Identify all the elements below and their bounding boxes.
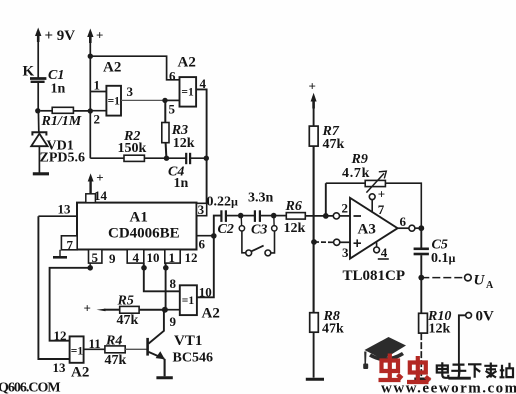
resistor R4: [105, 346, 125, 353]
pin 4 notch: [127, 250, 144, 264]
svg-text:47k: 47k: [105, 353, 127, 368]
pin 14 notch: [86, 194, 96, 203]
wire node to gate A2d pin9: [165, 309, 180, 311]
ground (0V): [448, 377, 470, 380]
svg-text:47k: 47k: [323, 137, 345, 152]
svg-text:+ 9V: + 9V: [45, 28, 76, 44]
svg-text:4.7k: 4.7k: [342, 166, 370, 181]
pin 1 notch: [165, 250, 180, 264]
node dot UA: [418, 275, 424, 281]
node dot feedback/pin2: [323, 213, 329, 219]
wire pin5 stub: [89, 263, 91, 268]
VT1 base bar: [146, 338, 149, 356]
R5 arrow (points left): [97, 309, 120, 312]
node dot C1/R1/VD1: [35, 108, 40, 113]
gate A2a body: [106, 86, 121, 116]
svg-text:47k: 47k: [322, 321, 344, 336]
node dot R1/pin2: [88, 108, 93, 113]
resistor R7: [309, 126, 318, 146]
svg-text:2: 2: [342, 201, 349, 216]
wire rail R7 to R8: [313, 146, 315, 313]
svg-text:14: 14: [94, 188, 108, 203]
node dot pin4/10: [141, 265, 147, 271]
node dot output: [418, 225, 424, 231]
wire feedback top row: [326, 183, 422, 228]
svg-text:=1: =1: [108, 96, 121, 108]
node dot pin6/C2 column: [211, 233, 217, 239]
svg-text:A3: A3: [358, 222, 376, 238]
wire C1 to node: [37, 83, 39, 111]
wire pin 13: [38, 215, 77, 217]
node dot R5/VT1/pin9: [162, 307, 168, 313]
svg-text:12k: 12k: [284, 221, 306, 236]
resistor R2: [124, 155, 167, 161]
gate A2d body: [180, 285, 197, 315]
svg-text:4: 4: [381, 245, 388, 260]
wire rail B down: [89, 56, 91, 158]
watermark graduation cap logo: [363, 337, 406, 369]
output terminal circle: [409, 225, 415, 231]
svg-text:6: 6: [199, 237, 206, 252]
svg-text:+: +: [96, 170, 103, 185]
wire VD1 to ground: [38, 146, 40, 172]
wire C3 to R6: [274, 215, 287, 217]
node dot pin1: [163, 265, 169, 271]
switch S contact stub right: [272, 218, 277, 231]
svg-text:=1: =1: [71, 346, 84, 358]
VT1 emitter with arrow: [149, 351, 165, 376]
wire A3 output: [398, 227, 409, 229]
wire terminal to output node: [415, 227, 421, 229]
wire output node to C5: [420, 228, 422, 247]
capacitor C3: [241, 210, 274, 222]
UA terminal circle: [465, 274, 472, 281]
node dot gate output / R3: [162, 98, 167, 103]
node dot rail B top: [88, 54, 93, 59]
svg-text:R5: R5: [117, 293, 134, 308]
0V terminal circle: [466, 312, 472, 318]
wire pin10 to gate A2d pin8: [144, 263, 180, 291]
wire node to gate A2b pin5: [165, 99, 180, 101]
svg-text:R1/1M: R1/1M: [41, 114, 82, 129]
pin 6 wire: [197, 235, 214, 237]
svg-text:R9: R9: [351, 152, 368, 167]
svg-text:=1: =1: [181, 87, 194, 99]
ground (VD1): [33, 172, 49, 175]
svg-text:2: 2: [94, 112, 101, 127]
svg-text:Q606.COM: Q606.COM: [0, 381, 60, 394]
svg-text:+: +: [378, 187, 385, 202]
wire R6 to op-amp pin2: [305, 215, 333, 217]
wire supply to C1: [37, 42, 39, 78]
svg-text:10: 10: [147, 250, 160, 265]
wire R4 to VT1 base: [125, 348, 146, 350]
svg-text:A2: A2: [71, 365, 89, 381]
svg-text:6: 6: [400, 214, 407, 229]
capacitor C4: [167, 153, 207, 164]
wire R5 to node: [139, 309, 166, 311]
svg-text:13: 13: [58, 202, 72, 217]
switch S lower-left contact: [242, 231, 252, 256]
svg-text:1: 1: [94, 78, 101, 93]
svg-text:A2: A2: [202, 306, 220, 322]
watermark red chars (chong chong): [379, 354, 431, 383]
zener diode VD1: [31, 132, 47, 146]
svg-text:3: 3: [198, 202, 205, 217]
svg-text:+: +: [309, 79, 316, 94]
wire gate A2d output up to pin6/C2: [197, 216, 221, 298]
wire gate A2b output down to pin3 of A1: [196, 89, 207, 203]
wire node to VD1: [37, 111, 39, 132]
R9 adjust arrow: [366, 171, 386, 192]
minus bar pin4: [378, 258, 389, 260]
switch S lever: [252, 246, 264, 252]
watermark black chars (dianzi xiazai zhan): [437, 362, 513, 378]
svg-text:12k: 12k: [429, 322, 451, 337]
wire R10 to ground: [420, 333, 422, 377]
svg-text:A: A: [486, 280, 494, 291]
svg-text:CD4006BE: CD4006BE: [108, 226, 180, 242]
wire feedback up: [325, 183, 327, 216]
svg-text:5: 5: [92, 250, 99, 265]
node dot C4/pin3 column: [204, 156, 209, 161]
svg-text:5: 5: [169, 102, 176, 117]
pin 5 notch: [89, 250, 102, 264]
svg-text:A2: A2: [103, 60, 121, 76]
wire gate A2c output to R4: [84, 348, 105, 350]
svg-text:150k: 150k: [118, 141, 147, 156]
svg-text:R4: R4: [105, 333, 122, 348]
resistor R3: [162, 100, 169, 158]
node dot C3/R6: [271, 213, 277, 219]
svg-text:1n: 1n: [174, 176, 189, 191]
pin3 terminal: [334, 239, 350, 245]
svg-text:U: U: [474, 273, 486, 289]
svg-text:3.3n: 3.3n: [248, 191, 274, 206]
svg-text:ZPD5.6: ZPD5.6: [40, 151, 86, 166]
wire rail to R2: [90, 157, 124, 159]
wire to R7: [313, 109, 315, 127]
svg-text:+: +: [84, 301, 91, 316]
wire pin2 input: [90, 110, 106, 112]
svg-text:www.eeworm.com: www.eeworm.com: [381, 381, 516, 394]
svg-text:=1: =1: [182, 295, 195, 307]
pin 4 stub: [374, 242, 380, 253]
plus mark (pin3): [354, 239, 362, 247]
node dot R2/R3/C4: [164, 156, 169, 161]
svg-text:1n: 1n: [51, 82, 66, 97]
ground (R8): [306, 378, 324, 381]
resistor R10: [419, 313, 428, 333]
ground (pin 7): [53, 250, 67, 257]
wire UA node to R10: [420, 278, 422, 314]
capacitor C1: [30, 79, 46, 82]
svg-text:13: 13: [53, 360, 67, 375]
ground (VT1 emitter): [156, 376, 172, 379]
svg-text:7: 7: [378, 202, 385, 217]
svg-text:C2: C2: [218, 222, 234, 237]
pin 7 notch: [61, 236, 77, 250]
wire R8 to ground: [313, 332, 315, 377]
pin 14 supply arrow: [88, 173, 94, 193]
svg-text:6: 6: [169, 69, 176, 84]
VT1 collector: [149, 310, 164, 344]
resistor R9: [365, 180, 385, 186]
+ supply arrow (rail B): [87, 29, 93, 44]
wire pin2 terminal: [333, 213, 350, 219]
svg-text:3: 3: [127, 84, 134, 99]
svg-text:12: 12: [54, 328, 67, 343]
svg-text:BC546: BC546: [173, 350, 213, 365]
svg-text:4: 4: [133, 250, 140, 265]
wire to UA terminal: [421, 277, 464, 279]
svg-text:9: 9: [170, 314, 177, 329]
svg-text:A2: A2: [178, 55, 196, 71]
node dot C2/C3: [238, 213, 244, 219]
svg-text:0.22µ: 0.22µ: [207, 195, 239, 210]
wire pin13 left descent: [38, 216, 69, 359]
switch S contact stub left: [239, 218, 244, 231]
wire rail to pin3: [314, 241, 334, 243]
node dot rail/pin3: [311, 239, 317, 245]
resistor R5: [120, 306, 139, 313]
resistor R1: [41, 107, 91, 113]
ground (R10): [414, 378, 430, 381]
resistor R8: [310, 313, 319, 333]
resistor R6: [286, 213, 305, 220]
capacitor C2: [221, 210, 240, 222]
svg-text:TL081CP: TL081CP: [343, 268, 406, 284]
svg-text:1: 1: [169, 250, 176, 265]
wire pin5 to left descent: [50, 268, 91, 341]
A1 body: [77, 203, 197, 250]
+9V supply arrow: [35, 28, 41, 43]
+ supply arrow (R7): [311, 93, 317, 109]
svg-text:7: 7: [67, 238, 74, 253]
svg-text:VT1: VT1: [174, 333, 202, 349]
svg-text:A1: A1: [130, 210, 148, 226]
svg-text:9: 9: [109, 251, 116, 266]
wire pin1 down to node: [165, 263, 167, 310]
svg-text:12k: 12k: [173, 136, 195, 151]
gate A2b body: [180, 77, 197, 107]
minus mark (pin2): [354, 215, 362, 217]
svg-text:0V: 0V: [476, 309, 495, 325]
wire gate A2a output: [121, 99, 166, 101]
pin 3 notch: [197, 203, 207, 215]
svg-text:12: 12: [185, 250, 198, 265]
svg-text:+: +: [96, 28, 103, 43]
switch S lower-right contact: [265, 231, 275, 256]
wire pin1 input: [90, 91, 106, 93]
node dot pin5: [87, 265, 93, 271]
svg-text:0.1µ: 0.1µ: [431, 251, 456, 266]
svg-text:R6: R6: [285, 199, 302, 214]
svg-text:8: 8: [170, 276, 177, 291]
svg-text:K: K: [23, 64, 35, 80]
gate A2c body: [70, 336, 84, 362]
capacitor C5: [414, 249, 429, 278]
wire to gate A2b pin6: [90, 56, 179, 80]
svg-text:3: 3: [342, 245, 349, 260]
wire 0V to ground: [459, 315, 466, 376]
svg-text:47k: 47k: [117, 313, 139, 328]
op-amp A3 triangle: [350, 198, 398, 259]
pin 7 stub: [369, 194, 375, 213]
svg-text:C3: C3: [251, 223, 267, 238]
wire rail B top: [89, 43, 91, 56]
